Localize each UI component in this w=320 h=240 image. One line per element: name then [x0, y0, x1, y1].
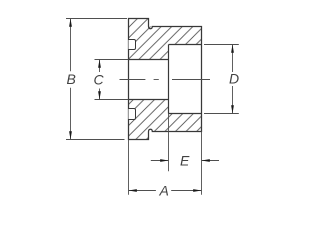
dimension D arrowheads [231, 45, 234, 53]
dimension A line [129, 190, 156, 192]
left-face groove upper [129, 40, 136, 50]
counterbore top edge [169, 44, 202, 46]
svg-text:C: C [94, 72, 105, 88]
counterbore bottom edge [169, 113, 202, 115]
dimension C line [99, 60, 101, 73]
dimension E extension line left [168, 114, 170, 172]
svg-text:E: E [180, 152, 190, 168]
dimension B line [70, 19, 72, 72]
right extension line (E and A) [201, 132, 203, 195]
dimension A arrowheads [129, 189, 137, 192]
left-face groove lower [129, 109, 136, 120]
section hatching upper solid region [129, 19, 202, 60]
dimension B extension lines [66, 18, 127, 20]
dimension B arrowheads [69, 19, 72, 27]
centerline [120, 79, 211, 81]
dimension D line [232, 45, 234, 73]
dimension D extension lines [204, 44, 239, 46]
part outer profile (flange + body with relief grooves) [129, 19, 202, 140]
dimension C arrowheads [98, 60, 101, 68]
counterbore bottom face vertical [168, 45, 170, 114]
section hatching lower solid region [129, 100, 202, 140]
dimension E right arrow [202, 160, 220, 162]
dimension E left arrow [151, 160, 169, 162]
svg-text:D: D [229, 71, 239, 87]
svg-text:A: A [159, 182, 169, 198]
bore top edge [129, 59, 169, 61]
svg-text:B: B [67, 71, 76, 87]
bore bottom edge [129, 99, 169, 101]
dimension C extension lines [95, 59, 129, 61]
dimension A extension line left [128, 140, 130, 195]
